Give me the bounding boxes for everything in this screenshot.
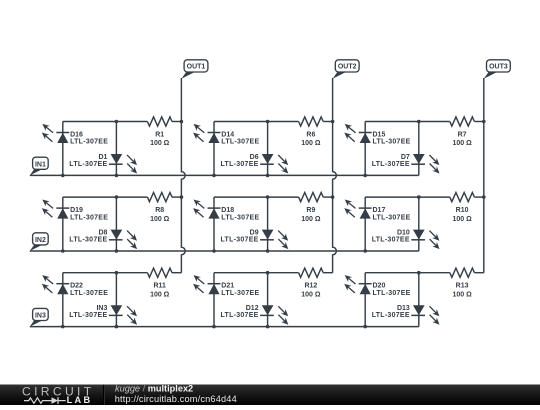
wire R6 right lead bbox=[323, 121, 332, 123]
resistor R12 100 Ohm bbox=[299, 268, 324, 298]
svg-text:LTL-307EE: LTL-307EE bbox=[221, 214, 259, 221]
junction at (483.8,121.5) bbox=[482, 120, 486, 124]
wire cell r3c3 top bbox=[365, 272, 450, 274]
resistor R10 100 Ohm bbox=[450, 193, 475, 223]
junction at (214,326.6) bbox=[212, 325, 216, 329]
wire cell r1c2 top bbox=[214, 121, 299, 123]
svg-text:LTL-307EE: LTL-307EE bbox=[69, 161, 107, 168]
svg-text:D17: D17 bbox=[373, 207, 386, 214]
svg-text:kugge / multiplex2: kugge / multiplex2 bbox=[115, 384, 193, 394]
svg-text:R11: R11 bbox=[153, 283, 166, 290]
svg-text:D19: D19 bbox=[70, 207, 83, 214]
LED D14 LTL-307EE (up) bbox=[193, 124, 259, 146]
resistor R1 100 Ohm bbox=[147, 117, 172, 147]
svg-text:LTL-307EE: LTL-307EE bbox=[372, 161, 410, 168]
wire cell r3c3 left branch bbox=[364, 273, 366, 327]
junction at (332.6,121.5) bbox=[331, 120, 335, 124]
svg-text:D1: D1 bbox=[98, 154, 107, 161]
svg-text:LTL-307EE: LTL-307EE bbox=[69, 312, 107, 319]
svg-text:D15: D15 bbox=[373, 131, 386, 138]
svg-text:R8: R8 bbox=[155, 207, 164, 214]
wire R12 right lead bbox=[323, 272, 332, 274]
junction at (62.8,251) bbox=[61, 249, 65, 253]
junction at (116.4,272.7) bbox=[115, 271, 119, 275]
svg-text:LTL-307EE: LTL-307EE bbox=[372, 237, 410, 244]
wire R13 right lead bbox=[474, 272, 483, 274]
svg-text:100 Ω: 100 Ω bbox=[150, 140, 170, 147]
net flag OUT3 bbox=[484, 60, 511, 79]
svg-text:100 Ω: 100 Ω bbox=[301, 140, 321, 147]
junction at (418.8,272.7) bbox=[417, 271, 421, 275]
LED IN3 LTL-307EE (down) bbox=[69, 305, 137, 325]
svg-text:100 Ω: 100 Ω bbox=[452, 291, 472, 298]
svg-text:IN2: IN2 bbox=[35, 237, 46, 244]
resistor R11 100 Ohm bbox=[147, 268, 172, 298]
junction at (116.4,121.5) bbox=[115, 120, 119, 124]
junction at (116.4,251) bbox=[115, 249, 119, 253]
wire cell r2c2 top bbox=[214, 196, 299, 198]
svg-text:D10: D10 bbox=[397, 229, 410, 236]
LED D17 LTL-307EE (up) bbox=[344, 200, 410, 222]
wire cell r1c3 top bbox=[365, 121, 450, 123]
resistor R13 100 Ohm bbox=[450, 268, 475, 298]
resistor R9 100 Ohm bbox=[299, 193, 324, 223]
LED D22 LTL-307EE (up) bbox=[42, 275, 108, 297]
junction at (181.4,121.5) bbox=[180, 120, 184, 124]
LED D20 LTL-307EE (up) bbox=[344, 275, 410, 297]
wire cell r1c1 left branch bbox=[62, 122, 64, 176]
LED D18 LTL-307EE (up) bbox=[193, 200, 259, 222]
LED D16 LTL-307EE (up) bbox=[42, 124, 108, 146]
wire R11 right lead bbox=[172, 272, 181, 274]
svg-text:LTL-307EE: LTL-307EE bbox=[221, 161, 259, 168]
junction at (181.4,197.1) bbox=[180, 195, 184, 199]
svg-text:LTL-307EE: LTL-307EE bbox=[69, 237, 107, 244]
footer divider bbox=[103, 385, 105, 406]
LED D1 LTL-307EE (down) bbox=[69, 154, 137, 174]
junction at (365.2,251) bbox=[363, 249, 367, 253]
net flag IN1 bbox=[30, 157, 48, 175]
svg-text:D7: D7 bbox=[401, 154, 410, 161]
wire cell r2c2 left branch bbox=[213, 197, 215, 251]
svg-text:IN1: IN1 bbox=[35, 162, 46, 169]
junction at (418.8,121.5) bbox=[417, 120, 421, 124]
svg-text:D18: D18 bbox=[221, 207, 234, 214]
wire cell r3c1 top bbox=[63, 272, 148, 274]
wire cell r3c2 left branch bbox=[213, 273, 215, 327]
LED D15 LTL-307EE (up) bbox=[344, 124, 410, 146]
wire OUT1 vertical rail bbox=[181, 78, 185, 273]
net flag OUT1 bbox=[181, 60, 208, 79]
LED D7 LTL-307EE (down) bbox=[372, 154, 440, 174]
wire R9 right lead bbox=[323, 196, 332, 198]
wire cell r2c3 top bbox=[365, 196, 450, 198]
svg-text:100 Ω: 100 Ω bbox=[452, 140, 472, 147]
LED D21 LTL-307EE (up) bbox=[193, 275, 259, 297]
wire cell r2c1 middle branch bbox=[115, 197, 117, 251]
junction at (116.4,326.6) bbox=[115, 325, 119, 329]
junction at (365.2,175.4) bbox=[363, 174, 367, 178]
svg-text:LTL-307EE: LTL-307EE bbox=[70, 214, 108, 221]
svg-text:IN3: IN3 bbox=[96, 305, 107, 312]
junction at (267.6,272.7) bbox=[266, 271, 270, 275]
svg-text:OUT3: OUT3 bbox=[489, 64, 508, 71]
wire OUT2 vertical rail bbox=[333, 78, 337, 273]
wire cell r1c2 middle branch bbox=[267, 122, 269, 176]
resistor R6 100 Ohm bbox=[299, 117, 324, 147]
junction at (267.6,251) bbox=[266, 249, 270, 253]
svg-text:R9: R9 bbox=[306, 207, 315, 214]
svg-text:D6: D6 bbox=[250, 154, 259, 161]
svg-text:D21: D21 bbox=[221, 283, 234, 290]
wire R8 right lead bbox=[172, 196, 181, 198]
svg-text:100 Ω: 100 Ω bbox=[150, 216, 170, 223]
resistor R7 100 Ohm bbox=[450, 117, 475, 147]
svg-text:LTL-307EE: LTL-307EE bbox=[221, 312, 259, 319]
junction at (116.4,175.4) bbox=[115, 174, 119, 178]
net flag IN3 bbox=[30, 308, 48, 326]
svg-text:100 Ω: 100 Ω bbox=[452, 216, 472, 223]
svg-text:LTL-307EE: LTL-307EE bbox=[221, 139, 259, 146]
wire IN1 horizontal rail bbox=[30, 174, 419, 176]
LED D10 LTL-307EE (down) bbox=[372, 229, 440, 249]
svg-text:LTL-307EE: LTL-307EE bbox=[373, 290, 411, 297]
svg-text:D8: D8 bbox=[98, 229, 107, 236]
LED D8 LTL-307EE (down) bbox=[69, 229, 137, 249]
svg-text:R6: R6 bbox=[306, 132, 315, 139]
wire R10 right lead bbox=[474, 196, 483, 198]
svg-text:LTL-307EE: LTL-307EE bbox=[221, 290, 259, 297]
wire cell r1c3 left branch bbox=[364, 122, 366, 176]
junction at (332.6,197.1) bbox=[331, 195, 335, 199]
svg-text:R7: R7 bbox=[458, 132, 467, 139]
LED D6 LTL-307EE (down) bbox=[221, 154, 289, 174]
svg-text:100 Ω: 100 Ω bbox=[150, 291, 170, 298]
wire cell r3c3 middle branch bbox=[418, 273, 420, 327]
wire R7 right lead bbox=[474, 121, 483, 123]
junction at (267.6,326.6) bbox=[266, 325, 270, 329]
junction at (483.8,197.1) bbox=[482, 195, 486, 199]
wire cell r3c1 left branch bbox=[62, 273, 64, 327]
svg-text:LTL-307EE: LTL-307EE bbox=[221, 237, 259, 244]
svg-text:LTL-307EE: LTL-307EE bbox=[70, 290, 108, 297]
wire cell r1c1 middle branch bbox=[115, 122, 117, 176]
svg-text:D22: D22 bbox=[70, 283, 83, 290]
wire cell r2c2 middle branch bbox=[267, 197, 269, 251]
net flag OUT2 bbox=[333, 60, 359, 79]
wire cell r2c1 top bbox=[63, 196, 148, 198]
svg-text:R12: R12 bbox=[304, 283, 317, 290]
svg-text:R10: R10 bbox=[456, 207, 469, 214]
svg-text:D16: D16 bbox=[70, 131, 83, 138]
junction at (267.6,197.1) bbox=[266, 195, 270, 199]
footer bar bbox=[0, 385, 540, 406]
wire cell r2c3 middle branch bbox=[418, 197, 420, 251]
svg-text:OUT1: OUT1 bbox=[187, 64, 206, 71]
svg-text:R1: R1 bbox=[155, 132, 164, 139]
svg-text:R13: R13 bbox=[456, 283, 469, 290]
wire cell r2c3 left branch bbox=[364, 197, 366, 251]
wire cell r2c1 left branch bbox=[62, 197, 64, 251]
svg-text:D13: D13 bbox=[397, 305, 410, 312]
wire cell r3c2 middle branch bbox=[267, 273, 269, 327]
svg-text:http://circuitlab.com/cn64d44: http://circuitlab.com/cn64d44 bbox=[115, 394, 237, 404]
wire cell r1c3 middle branch bbox=[418, 122, 420, 176]
wire IN3 horizontal rail bbox=[30, 326, 419, 328]
junction at (62.8,326.6) bbox=[61, 325, 65, 329]
junction at (267.6,175.4) bbox=[266, 174, 270, 178]
svg-text:LTL-307EE: LTL-307EE bbox=[373, 139, 411, 146]
wire cell r3c1 middle branch bbox=[115, 273, 117, 327]
svg-text:D14: D14 bbox=[221, 131, 234, 138]
svg-text:100 Ω: 100 Ω bbox=[301, 291, 321, 298]
svg-text:D20: D20 bbox=[373, 283, 386, 290]
svg-text:LTL-307EE: LTL-307EE bbox=[373, 214, 411, 221]
svg-text:LAB: LAB bbox=[67, 395, 93, 405]
resistor R8 100 Ohm bbox=[147, 193, 172, 223]
junction at (214,251) bbox=[212, 249, 216, 253]
svg-text:D9: D9 bbox=[250, 229, 259, 236]
junction at (418.8,197.1) bbox=[417, 195, 421, 199]
junction at (365.2,326.6) bbox=[363, 325, 367, 329]
wire cell r3c2 top bbox=[214, 272, 299, 274]
LED D12 LTL-307EE (down) bbox=[221, 305, 289, 325]
junction at (62.8,175.4) bbox=[61, 174, 65, 178]
wire IN2 horizontal rail bbox=[30, 250, 419, 252]
junction at (267.6,121.5) bbox=[266, 120, 270, 124]
wire cell r1c2 left branch bbox=[213, 122, 215, 176]
wire OUT3 vertical rail bbox=[483, 78, 485, 273]
CircuitLab logo bbox=[22, 385, 95, 406]
LED D19 LTL-307EE (up) bbox=[42, 200, 108, 222]
svg-text:100 Ω: 100 Ω bbox=[301, 216, 321, 223]
svg-text:IN3: IN3 bbox=[35, 313, 46, 320]
junction at (116.4,197.1) bbox=[115, 195, 119, 199]
LED D13 LTL-307EE (down) bbox=[372, 305, 440, 325]
wire R1 right lead bbox=[172, 121, 181, 123]
junction at (214,175.4) bbox=[212, 174, 216, 178]
svg-text:LTL-307EE: LTL-307EE bbox=[70, 139, 108, 146]
svg-text:OUT2: OUT2 bbox=[338, 64, 357, 71]
net flag IN2 bbox=[30, 233, 48, 251]
svg-text:D12: D12 bbox=[246, 305, 259, 312]
wire cell r1c1 top bbox=[63, 121, 148, 123]
LED D9 LTL-307EE (down) bbox=[221, 229, 289, 249]
svg-text:LTL-307EE: LTL-307EE bbox=[372, 312, 410, 319]
